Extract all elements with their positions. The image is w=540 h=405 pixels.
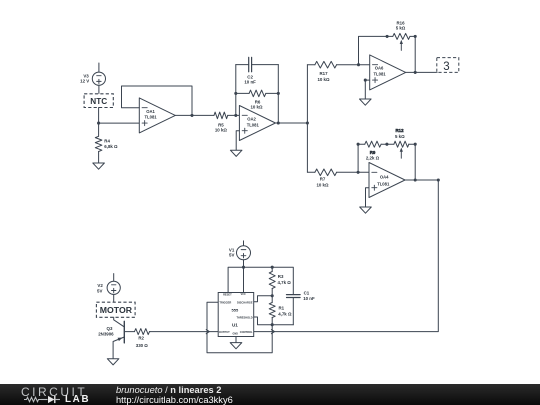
resistor R4 6.8k <box>95 123 118 163</box>
svg-text:10 nF: 10 nF <box>303 296 315 301</box>
svg-text:C1: C1 <box>304 290 310 295</box>
svg-text:5V: 5V <box>229 253 234 258</box>
svg-text:6,8k Ω: 6,8k Ω <box>104 144 118 149</box>
wire: rail right to C1 <box>244 266 294 295</box>
resistor R6 10k (feedback) <box>234 90 280 110</box>
wire: OA4 feedback right to output <box>414 144 417 181</box>
svg-text:10 kΩ: 10 kΩ <box>250 105 263 110</box>
resistor R9 2.2k (feedback) <box>365 141 389 160</box>
logo resistor/diode squiggle <box>0 384 64 405</box>
wire: OA6 feedback left <box>359 35 389 65</box>
svg-text:R9: R9 <box>370 150 376 155</box>
svg-text:330 Ω: 330 Ω <box>136 343 149 348</box>
wire: rail to RESET <box>228 267 243 292</box>
svg-text:V3: V3 <box>83 73 89 78</box>
wire: V2 to MOTOR <box>113 294 115 302</box>
wire: OA2 output to node B <box>275 122 307 124</box>
svg-text:Q3: Q3 <box>107 326 113 331</box>
svg-text:OA4: OA4 <box>380 175 389 180</box>
svg-text:MOTOR: MOTOR <box>100 305 133 315</box>
svg-text:VCC: VCC <box>241 293 246 296</box>
wire: OA4 feedback left <box>357 143 365 173</box>
555 timer U1 <box>218 293 254 337</box>
wire: V2 top stub <box>113 274 115 282</box>
resistor R17 10k <box>307 61 369 82</box>
MOTOR box <box>96 302 135 317</box>
svg-text:TL081: TL081 <box>377 182 390 187</box>
wire: V1 stub top segment <box>243 241 245 243</box>
svg-text:OA2: OA2 <box>247 117 256 122</box>
wire: threshold row to C1 <box>272 324 293 326</box>
svg-text:TL081: TL081 <box>247 123 260 128</box>
transistor Q3 2N3906 <box>98 317 124 358</box>
capacitor C1 10nF <box>287 290 315 324</box>
ground (Q3 emitter) <box>107 359 119 365</box>
resistor R2 330 <box>124 329 150 348</box>
wire: threshold to 555 <box>254 317 273 325</box>
wire: OA1 output <box>175 114 214 117</box>
node: threshold junction <box>271 323 274 326</box>
wire: OA1 feedback loop <box>122 86 193 115</box>
svg-text:10 kΩ: 10 kΩ <box>317 77 330 82</box>
potentiometer R12 5k <box>387 128 417 158</box>
svg-text:R12: R12 <box>395 128 404 133</box>
ground (OA2) <box>230 150 242 156</box>
svg-text:555: 555 <box>232 307 239 312</box>
wire: OA2 + input to ground <box>236 131 239 151</box>
node B junction <box>306 121 309 124</box>
resistor R1 4.7k <box>269 296 292 325</box>
voltage source V1 5V <box>229 246 251 260</box>
op-amp OA1 TL081 (buffer) <box>139 98 175 133</box>
resistor R7 10k <box>307 169 369 187</box>
wire hop (output row) <box>206 330 209 334</box>
wire: node B vertical branch <box>306 65 308 173</box>
svg-text:OA6: OA6 <box>375 65 384 70</box>
node A junction <box>97 122 100 125</box>
svg-text:5V: 5V <box>97 288 102 293</box>
svg-text:DISCHARGE: DISCHARGE <box>237 300 253 304</box>
svg-text:GND: GND <box>233 332 239 335</box>
svg-text:TRIGGER: TRIGGER <box>219 300 231 304</box>
ground (OA4) <box>360 207 372 213</box>
svg-text:R7: R7 <box>320 177 326 182</box>
svg-text:NTC: NTC <box>90 97 107 106</box>
wire: OA6 output to flag <box>406 71 438 73</box>
potentiometer R16 5k <box>387 21 417 51</box>
wire hop (control row) <box>271 330 274 334</box>
wire: right column down to 555 control <box>254 180 439 332</box>
svg-text:10 nF: 10 nF <box>244 79 256 84</box>
svg-text:R4: R4 <box>104 138 110 143</box>
wire: node A to OA1 + input <box>99 122 140 124</box>
wire: discharge to 555 <box>254 296 273 302</box>
wire: OA2 -input junction <box>234 65 237 117</box>
svg-text:R17: R17 <box>319 71 328 76</box>
svg-text:4,7k Ω: 4,7k Ω <box>278 311 292 316</box>
resistor R3 4.7k <box>269 267 291 296</box>
ground (R4) <box>93 163 105 169</box>
svg-text:TL081: TL081 <box>145 115 158 120</box>
capacitor C2 10nF <box>236 57 278 84</box>
wire: V1 top stub <box>243 241 245 246</box>
svg-text:OA1: OA1 <box>146 109 155 114</box>
svg-text:THRESHOLD: THRESHOLD <box>236 315 252 319</box>
wire: V3 top stub <box>98 63 100 72</box>
svg-text:U1: U1 <box>232 322 238 327</box>
resistor R5 10k <box>214 112 239 133</box>
voltage source V2 5V <box>97 281 120 294</box>
svg-text:2N3906: 2N3906 <box>98 331 114 336</box>
svg-text:CONTROL: CONTROL <box>240 330 253 334</box>
wire: OA4 + input to ground <box>366 188 370 207</box>
svg-text:12 V: 12 V <box>80 79 89 84</box>
wire: OA6 feedback right to output <box>414 36 417 74</box>
svg-text:R3: R3 <box>278 274 284 279</box>
svg-text:10 kΩ: 10 kΩ <box>316 182 329 187</box>
svg-text:OUTPUT: OUTPUT <box>219 330 230 334</box>
voltage source V3 12V <box>80 72 105 85</box>
wire: trigger loop to threshold node <box>207 302 272 353</box>
svg-text:10 kΩ: 10 kΩ <box>215 128 228 133</box>
svg-text:2,2k Ω: 2,2k Ω <box>366 155 380 160</box>
ground (OA6) <box>360 99 372 105</box>
svg-text:R1: R1 <box>279 305 285 310</box>
NTC thermistor box <box>84 94 113 108</box>
op-amp OA6 TL081 <box>370 55 406 90</box>
svg-text:5 kΩ: 5 kΩ <box>395 134 405 139</box>
wire: V3 to NTC <box>98 85 100 94</box>
svg-text:R2: R2 <box>138 336 144 341</box>
node: discharge junction <box>271 294 274 297</box>
ground (555 GND) <box>230 337 242 349</box>
svg-text:R5: R5 <box>218 122 224 127</box>
op-amp OA2 TL081 (integrator) <box>239 106 275 141</box>
output flag 3 <box>437 58 459 74</box>
svg-text:3: 3 <box>443 61 449 73</box>
wire: OA4 output to right column <box>405 178 440 181</box>
svg-text:RESET: RESET <box>223 293 232 297</box>
svg-text:4,7k Ω: 4,7k Ω <box>278 280 292 285</box>
wire: NTC to node A <box>98 108 100 124</box>
op-amp OA4 TL081 <box>369 163 405 198</box>
wire: C2/R6 right to OA2 output <box>277 65 280 125</box>
wire: OA6 + input to ground <box>364 79 370 99</box>
svg-text:TL081: TL081 <box>374 71 387 76</box>
wire: 555 output row <box>150 331 218 333</box>
svg-text:5 kΩ: 5 kΩ <box>396 25 406 30</box>
wire: V1 to VCC rail <box>242 260 245 293</box>
